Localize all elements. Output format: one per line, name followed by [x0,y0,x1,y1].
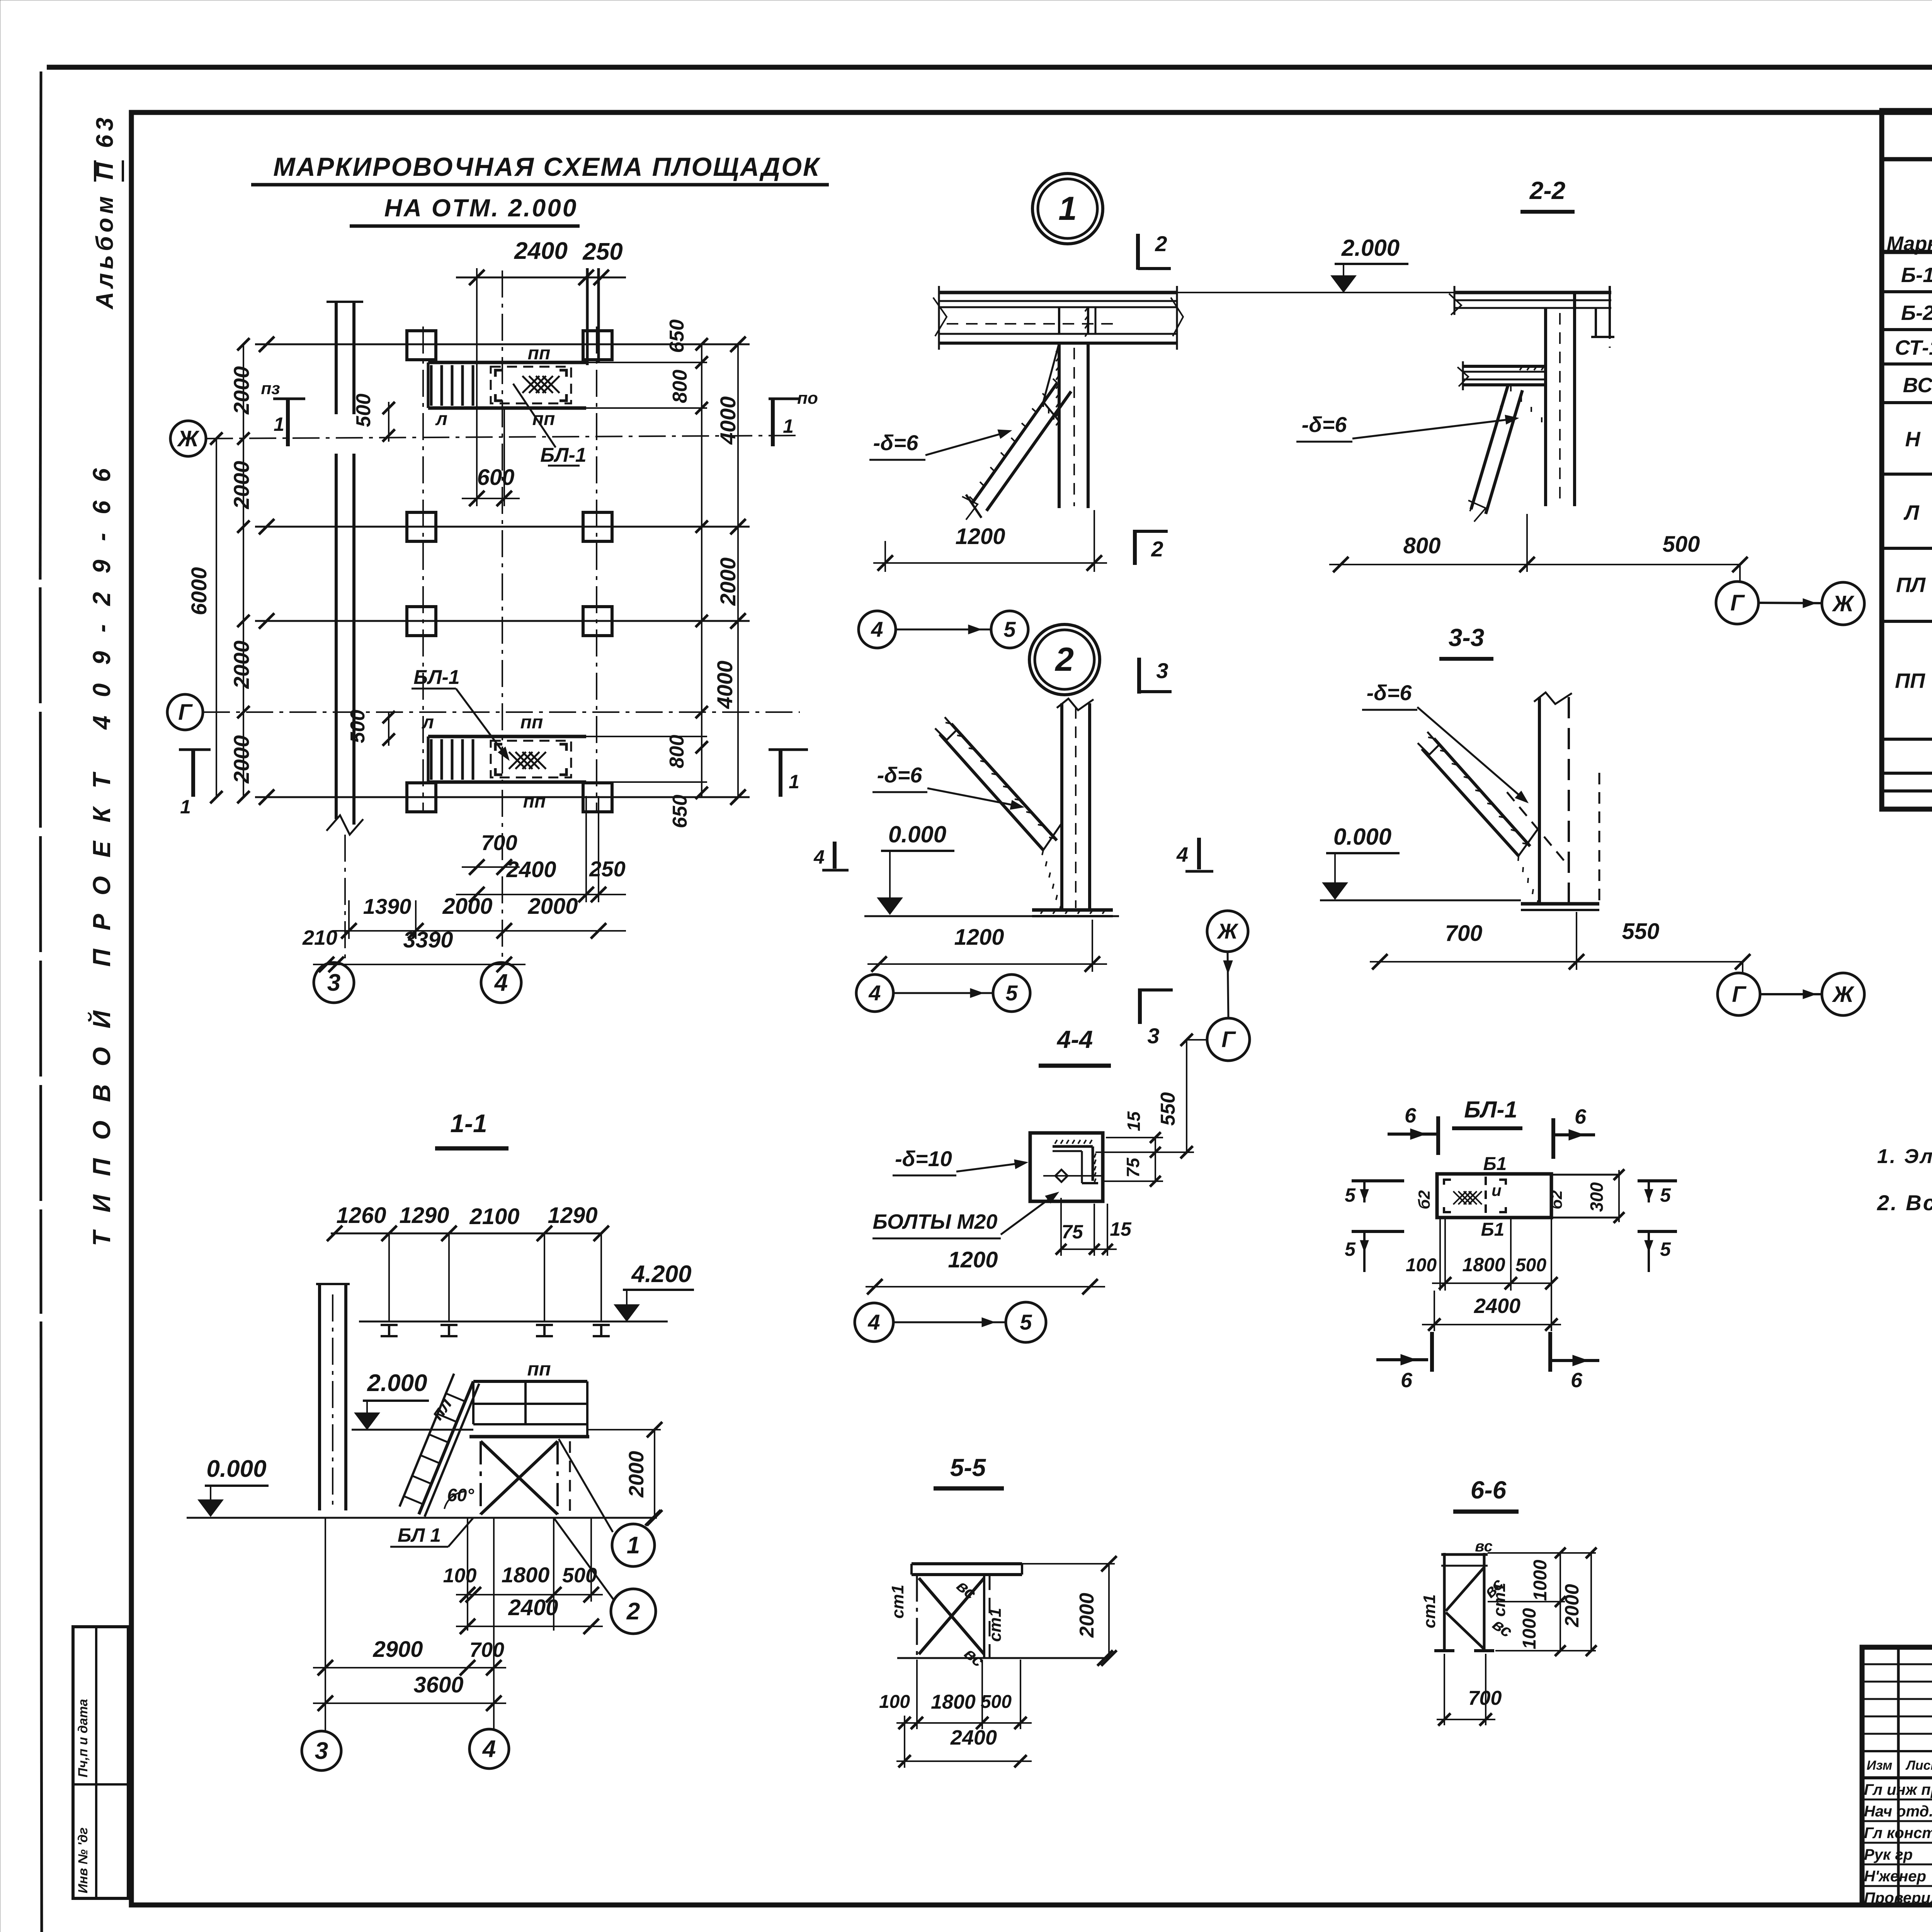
s55 ground [897,1657,1109,1659]
bl1 hatch [1453,1191,1466,1204]
upper block corner marks [495,370,502,377]
svg-text:Н: Н [1905,428,1921,451]
svg-text:2400: 2400 [950,1726,997,1749]
svg-text:1800: 1800 [502,1563,550,1587]
svg-text:4: 4 [813,846,825,868]
svg-text:Нач отд.: Нач отд. [1864,1803,1932,1820]
svg-text:Изм: Изм [1867,1758,1893,1773]
section mark 1 bottom-right [769,748,808,751]
s11 column [318,1284,321,1510]
svg-text:-δ=6: -δ=6 [877,763,923,787]
svg-text:Л: Л [1903,501,1920,524]
d2 column [1060,703,1063,910]
wall on axis 3 upper [335,302,338,414]
svg-text:500: 500 [981,1692,1012,1712]
s22 gusset and brace [1471,385,1508,509]
svg-text:Б-2: Б-2 [1901,301,1932,325]
section mark po-1 left [273,398,305,400]
svg-text:75: 75 [1123,1157,1143,1178]
d44 axis circles 4-5 [855,1303,893,1342]
d1 beam [939,291,1177,294]
svg-text:2: 2 [1151,537,1163,561]
svg-text:Лист: Лист [1905,1758,1932,1773]
svg-text:700: 700 [1445,921,1483,946]
platform PL-1 upper outline [428,361,586,364]
svg-text:3600: 3600 [413,1672,463,1697]
svg-text:Марка: Марка [1887,233,1932,255]
title block header row lines [1862,1750,1932,1752]
grid row A line [255,344,750,345]
svg-text:15: 15 [1124,1111,1144,1131]
svg-text:2.000: 2.000 [1341,235,1400,261]
svg-text:1200: 1200 [948,1247,998,1272]
svg-text:500: 500 [1515,1255,1546,1276]
bl1 block [1437,1174,1551,1218]
svg-text:1000: 1000 [1530,1560,1551,1601]
svg-text:5: 5 [1003,617,1016,641]
svg-text:СТ-1: СТ-1 [1895,336,1932,359]
table row lines full [1882,290,1932,293]
svg-text:л: л [435,409,447,429]
svg-text:0.000: 0.000 [1333,824,1391,850]
svg-text:5: 5 [1020,1310,1032,1334]
svg-text:пп: пп [523,791,546,812]
top right column pair [586,268,589,365]
svg-text:6: 6 [1401,1369,1413,1392]
svg-text:ТИПОВОЙ ПРОЕКТ 409-29-66: ТИПОВОЙ ПРОЕКТ 409-29-66 [87,450,116,1246]
axis circle 3 [314,963,354,1003]
svg-text:1: 1 [789,771,799,793]
svg-text:4000: 4000 [716,396,740,445]
upper BL-1 leader [513,384,556,447]
lower stair treads [430,739,433,780]
grid row B line [255,526,750,528]
platform extension lines lower [586,736,707,737]
svg-text:БОЛТЫ М20: БОЛТЫ М20 [873,1210,998,1233]
svg-text:4.200: 4.200 [631,1261,691,1287]
bl1 right strip 300 [1551,1174,1619,1176]
bl1 mark 6 top-right [1554,1133,1595,1136]
section mark 4 right [833,842,837,869]
svg-text:БЛ-1: БЛ-1 [1464,1097,1517,1122]
s22 axis circles G Zh [1716,582,1759,624]
svg-text:2000: 2000 [527,894,578,919]
plan right dim line inner [701,344,702,797]
svg-text:700: 700 [481,830,517,855]
table outer border [1882,111,1932,809]
svg-text:3: 3 [327,969,340,996]
svg-text:пп: пп [528,343,551,364]
svg-text:2400: 2400 [514,238,568,264]
svg-text:4: 4 [867,1310,880,1334]
svg-text:б2: б2 [1547,1190,1565,1209]
svg-text:Инв № 'дг: Инв № 'дг [76,1827,90,1893]
svg-text:75: 75 [1061,1221,1083,1243]
d1 axis circles 4-5 [859,611,896,648]
svg-text:Н'женер: Н'женер [1864,1868,1926,1885]
svg-text:Ж: Ж [1832,982,1855,1007]
svg-text:НА ОТМ. 2.000: НА ОТМ. 2.000 [384,194,578,222]
svg-text:1: 1 [180,796,191,818]
bl1 marks 5 right [1638,1179,1677,1182]
s11 stair flight [419,1381,473,1514]
title block name rows [1862,1799,1932,1801]
svg-text:2000: 2000 [442,894,492,919]
d2 section mark 4 right [1197,838,1201,869]
svg-text:1000: 1000 [1519,1608,1540,1649]
svg-text:БЛ-1: БЛ-1 [413,666,459,689]
svg-text:800: 800 [669,370,691,403]
platform PL-1 lower outline [428,735,586,738]
svg-text:210: 210 [302,926,337,949]
axis circle 4 [481,963,521,1003]
plan right dim line outer [737,344,739,797]
svg-text:Проверил: Проверил [1864,1889,1932,1906]
s11 axis circle 3 [302,1731,341,1770]
section mark po-1 right [769,398,801,400]
upper block dashed rect [491,367,571,403]
svg-text:4000: 4000 [713,661,737,709]
svg-text:2000: 2000 [229,735,253,784]
section mark 1 bottom-left [179,748,211,751]
svg-text:2000: 2000 [229,641,253,689]
svg-text:6: 6 [1405,1104,1417,1127]
svg-text:100: 100 [1406,1255,1437,1276]
svg-text:550: 550 [1622,919,1660,944]
axis G line [203,711,800,713]
d1 brace [972,383,1057,503]
d2 base plate [1032,908,1113,912]
column D2 [583,783,612,812]
top border line [47,65,1932,70]
svg-text:Гл конст: Гл конст [1864,1825,1932,1842]
svg-text:Г: Г [1732,982,1747,1007]
svg-text:550: 550 [1157,1092,1179,1126]
s11 brace tower [480,1441,482,1514]
svg-text:4: 4 [1176,843,1188,866]
svg-text:-δ=6: -δ=6 [1302,412,1347,437]
column B2 [583,512,612,541]
s11 axis circle 4 [469,1729,509,1769]
svg-text:Ж: Ж [177,426,200,451]
svg-text:500: 500 [1663,532,1700,557]
s33 brace [1434,738,1530,846]
svg-text:1200: 1200 [955,524,1005,549]
svg-text:1260: 1260 [336,1203,386,1228]
title block left grid columns [1897,1647,1900,1905]
lower BL-1 leader [456,689,507,758]
lower block corner marks [495,744,502,751]
wall break mark [327,815,363,835]
svg-text:2: 2 [1155,231,1167,256]
svg-text:800: 800 [1403,533,1441,558]
svg-text:1800: 1800 [931,1691,976,1713]
svg-text:-δ=10: -δ=10 [895,1146,952,1171]
svg-text:2400: 2400 [506,857,556,882]
svg-text:-δ=6: -δ=6 [1367,680,1412,705]
svg-text:2: 2 [626,1598,640,1625]
svg-text:2000: 2000 [229,366,253,415]
svg-text:5: 5 [1345,1238,1356,1260]
svg-text:2400: 2400 [508,1595,558,1620]
svg-text:1200: 1200 [954,925,1004,950]
bl1 mark 6 top-left [1388,1133,1436,1136]
platform extension lines upper [586,362,707,363]
svg-text:Гл инж пр: Гл инж пр [1864,1781,1932,1798]
svg-text:6: 6 [1571,1369,1583,1392]
svg-text:2400: 2400 [1474,1294,1520,1318]
svg-text:БЛ 1: БЛ 1 [398,1524,441,1546]
d44 box [1030,1133,1103,1201]
svg-text:1: 1 [274,413,284,435]
svg-text:2. Все болты М16 класса: 2. Все болты М16 класса 5,8 кроме оговор… [1877,1190,1932,1215]
plan left dim line [243,344,244,797]
title block outer [1862,1647,1932,1905]
svg-text:500: 500 [347,710,369,743]
upper stair treads [430,365,433,406]
svg-text:МАРКИРОВОЧНАЯ СХЕМА ПЛОЩАДОК: МАРКИРОВОЧНАЯ СХЕМА ПЛОЩАДОК [273,152,821,182]
svg-text:Г: Г [1730,590,1745,616]
svg-text:800: 800 [666,735,688,769]
detail 2 circle [1029,624,1100,695]
svg-text:Б-1: Б-1 [1901,264,1932,287]
svg-text:5-5: 5-5 [950,1454,986,1481]
s33 axis circles G Zh [1718,973,1760,1015]
svg-text:5: 5 [1005,981,1018,1005]
svg-text:2000: 2000 [716,558,740,606]
svg-text:2000: 2000 [1076,1593,1098,1638]
svg-text:3-3: 3-3 [1449,624,1485,651]
d2 section mark 3 bottom [1138,988,1142,1024]
svg-text:ст1: ст1 [888,1585,907,1619]
svg-text:Ж: Ж [1216,919,1239,943]
bl1 mark 6 bottom-left [1376,1358,1428,1361]
grid row C line [255,620,750,622]
column B1 [407,512,436,541]
svg-text:2000: 2000 [229,461,253,510]
svg-text:100: 100 [443,1565,477,1587]
svg-text:2900: 2900 [372,1637,423,1662]
svg-text:ПП: ПП [1895,669,1925,692]
bl1 inner dashes [1485,1177,1487,1215]
svg-text:4: 4 [494,969,508,996]
svg-text:1-1: 1-1 [450,1109,487,1138]
svg-text:4: 4 [482,1736,496,1762]
column A2 [583,331,612,360]
wall on axis 3 lower [335,454,338,819]
d2 brace [951,724,1057,840]
axis G circle [167,694,203,730]
column C1 [407,607,436,636]
svg-text:пз: пз [261,379,280,398]
svg-text:ст1: ст1 [1420,1594,1439,1628]
svg-text:6-6: 6-6 [1471,1476,1507,1504]
s11 callout circle 2 [611,1589,656,1634]
column A1 [407,331,436,360]
s22 level line [1177,292,1454,293]
d2 section mark 3 top [1137,658,1141,694]
s33 base plate [1521,902,1599,906]
bl1 marks 5 left [1352,1179,1404,1182]
left stamp box [73,1627,128,1898]
upper block hatch [522,376,539,393]
svg-text:-δ=6: -δ=6 [873,430,919,455]
d1 stiffeners in beam [1058,307,1060,334]
detail 1 circle [1032,173,1103,244]
lower block dashed rect [491,741,571,777]
d1 section mark 2 bottom [1133,530,1137,565]
s55 deck [912,1562,1022,1565]
svg-text:2: 2 [1054,641,1074,678]
svg-text:пп: пп [527,1358,551,1380]
d1 gusset [1043,343,1059,421]
left scan edge line [40,71,41,580]
svg-text:4: 4 [868,981,881,1005]
s11 hanger posts [388,1233,390,1321]
svg-text:б2: б2 [1415,1190,1433,1209]
svg-text:ВС: ВС [1903,374,1932,397]
axis Zh line [206,435,800,439]
grid row D line [255,796,750,798]
svg-text:0.000: 0.000 [888,821,946,847]
svg-text:Г: Г [178,700,193,725]
svg-text:6: 6 [1575,1105,1587,1128]
d1 column [1058,343,1061,508]
svg-text:БЛ-1: БЛ-1 [540,444,586,466]
svg-text:2000: 2000 [625,1451,648,1498]
s11 deck [473,1380,587,1383]
s33 column [1538,697,1541,904]
svg-text:ПЛ: ПЛ [1896,573,1926,597]
svg-text:2100: 2100 [469,1204,519,1229]
svg-text:600: 600 [477,465,515,490]
svg-text:2.000: 2.000 [367,1370,427,1396]
d2 gusset [1043,823,1062,910]
s55 X brace [916,1575,918,1658]
axis Zh circle [170,421,206,456]
svg-text:Пч,п и дата: Пч,п и дата [76,1699,90,1777]
s11 ground line [187,1517,657,1519]
svg-text:700: 700 [469,1638,504,1662]
svg-text:1800: 1800 [1462,1254,1505,1276]
svg-text:1. Элементы с неоговоренными: 1. Элементы с неоговоренными усилиями кр… [1877,1145,1932,1168]
column line v1 [422,327,424,811]
svg-text:0.000: 0.000 [206,1456,266,1482]
svg-text:100: 100 [879,1692,910,1712]
d44 angle inside [1053,1145,1093,1148]
s22 beam B2 [1463,365,1546,368]
d44 550 dim from G [1186,1040,1187,1152]
s33 ground line [1320,900,1521,901]
svg-text:ст1: ст1 [1490,1583,1509,1617]
column C2 [583,607,612,636]
svg-text:5: 5 [1660,1238,1671,1260]
svg-text:Б1: Б1 [1481,1219,1505,1240]
svg-text:и: и [1492,1181,1502,1199]
svg-text:300: 300 [1587,1182,1607,1212]
s33 dashed col line [1599,773,1600,904]
axis 4 centerline [502,270,503,963]
svg-text:1: 1 [783,415,794,437]
s22 top beam [1454,291,1611,294]
svg-text:250: 250 [589,857,625,881]
svg-text:6000: 6000 [187,567,211,616]
svg-text:5: 5 [1660,1184,1671,1206]
column D1 [407,783,436,812]
svg-text:650: 650 [669,795,691,828]
svg-text:4-4: 4-4 [1056,1026,1093,1053]
svg-text:650: 650 [666,320,688,353]
svg-text:3: 3 [1147,1024,1159,1048]
title block small rows [1862,1663,1932,1665]
svg-text:л: л [422,712,434,733]
d2 axis circles 4-5 [856,975,893,1012]
svg-text:250: 250 [582,238,622,265]
extension line x1234 [476,268,478,506]
svg-text:1290: 1290 [399,1203,449,1228]
svg-text:Ж: Ж [1832,591,1855,616]
svg-text:по: по [797,389,818,408]
s22 column [1544,308,1547,506]
svg-text:Г: Г [1221,1027,1236,1052]
d44 bolt [1055,1170,1068,1182]
svg-text:3: 3 [315,1738,328,1764]
svg-text:60°: 60° [447,1485,474,1505]
axis circles Zh-G column [1207,911,1248,952]
lower block hatch [509,752,526,769]
svg-text:1: 1 [1058,190,1077,227]
svg-text:3390: 3390 [403,927,453,952]
table title bottom line [1882,157,1932,162]
svg-text:5: 5 [1345,1184,1356,1206]
s66 truss [1443,1553,1446,1651]
svg-text:пп: пп [520,712,543,733]
svg-text:Рук гр: Рук гр [1864,1846,1913,1863]
svg-text:Б1: Б1 [1483,1154,1507,1174]
axis 3 centerline [344,835,346,963]
d1 section mark 2 top [1136,234,1140,270]
svg-text:ст1: ст1 [986,1608,1005,1642]
svg-text:15: 15 [1110,1218,1132,1240]
svg-text:2000: 2000 [1561,1584,1583,1627]
svg-text:Альбом: Альбом [92,192,118,310]
s11 callout circle 1 [612,1524,655,1566]
svg-text:4: 4 [871,617,883,641]
svg-text:1290: 1290 [548,1203,597,1228]
svg-text:1390: 1390 [363,894,412,918]
column line v2 [596,327,597,811]
svg-text:2-2: 2-2 [1529,177,1566,204]
svg-text:3: 3 [1156,658,1168,683]
d44 dims 15 75 right [1155,1138,1156,1181]
bl1 mark 6 bottom-right [1551,1359,1599,1362]
d2 ground line [864,915,1119,917]
svg-text:500: 500 [352,394,375,427]
s33 gusset [1519,827,1539,904]
svg-text:1: 1 [627,1532,640,1559]
